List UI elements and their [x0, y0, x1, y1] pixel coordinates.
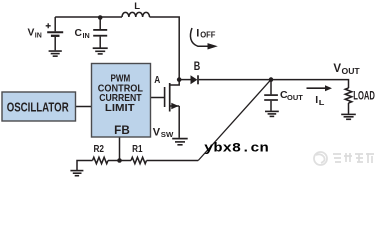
ground under V_IN — [49, 50, 62, 52]
battery V_IN plates — [47, 31, 63, 33]
svg-text:V: V — [153, 126, 161, 138]
transistor Q1 drain lead — [170, 80, 180, 85]
svg-text:ybx8.cn: ybx8.cn — [204, 141, 269, 156]
svg-text:B: B — [194, 61, 201, 73]
wire FB pin — [119, 137, 121, 161]
plus sign of V_IN — [46, 23, 51, 28]
svg-text:FB: FB — [114, 125, 130, 137]
resistor R2 zigzag — [93, 157, 109, 163]
I_OFF arrowhead — [208, 43, 218, 49]
resistor R1 zigzag — [131, 157, 147, 163]
svg-text:IN: IN — [35, 30, 42, 39]
watermark text 启芯硬件 — [333, 153, 374, 163]
wire top rail battery to inductor — [55, 16, 122, 18]
svg-text:OFF: OFF — [200, 31, 215, 40]
svg-text:LOAD: LOAD — [353, 88, 375, 102]
svg-text:OUT: OUT — [342, 67, 360, 76]
inductor L humps — [122, 12, 150, 17]
svg-text:V: V — [28, 27, 35, 38]
svg-text:I: I — [196, 27, 199, 39]
svg-text:L: L — [319, 98, 325, 107]
resistor LOAD zigzag — [345, 88, 352, 103]
capacitor C_OUT plates — [264, 94, 278, 96]
wire oscillator to PWM block — [76, 106, 92, 108]
wire source to ground — [178, 106, 180, 138]
svg-text:OSCILLATOR: OSCILLATOR — [7, 100, 69, 115]
svg-text:L: L — [134, 1, 140, 12]
battery V_IN lead bottom — [54, 37, 56, 50]
svg-text:A: A — [154, 75, 160, 86]
wire R2 to ground — [77, 161, 93, 171]
battery V_IN lead top — [54, 17, 56, 31]
wire diode to output node — [199, 79, 271, 81]
node junction dot FB — [117, 158, 122, 163]
I_OFF curved arrow arc — [190, 28, 208, 46]
transistor Q1 gate bar — [164, 87, 166, 107]
diode D1 cathode bar — [197, 75, 199, 84]
capacitor C_IN lead top — [99, 18, 101, 30]
node junction dot switch node — [177, 77, 182, 82]
transistor Q1 channel bar — [169, 83, 171, 112]
svg-text:IN: IN — [83, 31, 90, 40]
transistor Q1 source arrowhead — [171, 103, 178, 109]
svg-text:C: C — [75, 28, 83, 39]
capacitor C_IN lead bottom — [99, 37, 101, 48]
wire feedback diagonal — [198, 80, 271, 161]
ground under LOAD — [341, 113, 356, 115]
wire switch node to diode — [179, 79, 190, 81]
wire FB node to R1 — [108, 160, 131, 162]
svg-text:OUT: OUT — [287, 93, 303, 102]
node junction dot C_IN top — [98, 15, 103, 20]
ground under R2 — [70, 170, 83, 172]
wire gate A from PWM block — [151, 97, 165, 99]
svg-text:LIMIT: LIMIT — [105, 103, 135, 114]
I_L arrow shaft — [307, 87, 326, 89]
svg-text:V: V — [333, 63, 341, 75]
capacitor C_OUT lead bottom — [270, 101, 272, 111]
ground under C_IN — [93, 47, 108, 49]
block PWM CONTROL CURRENT LIMIT — [92, 64, 151, 138]
block OSCILLATOR — [2, 92, 76, 121]
svg-text:R1: R1 — [132, 144, 143, 155]
ground under source V_SW — [172, 138, 188, 140]
wire inductor to switch-node vertical — [150, 17, 180, 80]
ground under C_OUT — [265, 110, 279, 112]
svg-text:SW: SW — [161, 130, 174, 139]
wire R1 right — [147, 160, 199, 162]
watermark logo circle — [314, 152, 327, 165]
I_L arrowhead — [325, 85, 332, 91]
wire output node to load corner — [271, 80, 349, 88]
svg-text:R2: R2 — [94, 144, 105, 155]
capacitor C_IN plates — [93, 29, 107, 31]
wire load to ground — [348, 103, 350, 114]
diode D1 triangle — [191, 75, 198, 84]
capacitor C_OUT lead top — [270, 80, 272, 95]
transistor Q1 source lead — [170, 105, 180, 107]
node junction dot output — [269, 77, 274, 82]
